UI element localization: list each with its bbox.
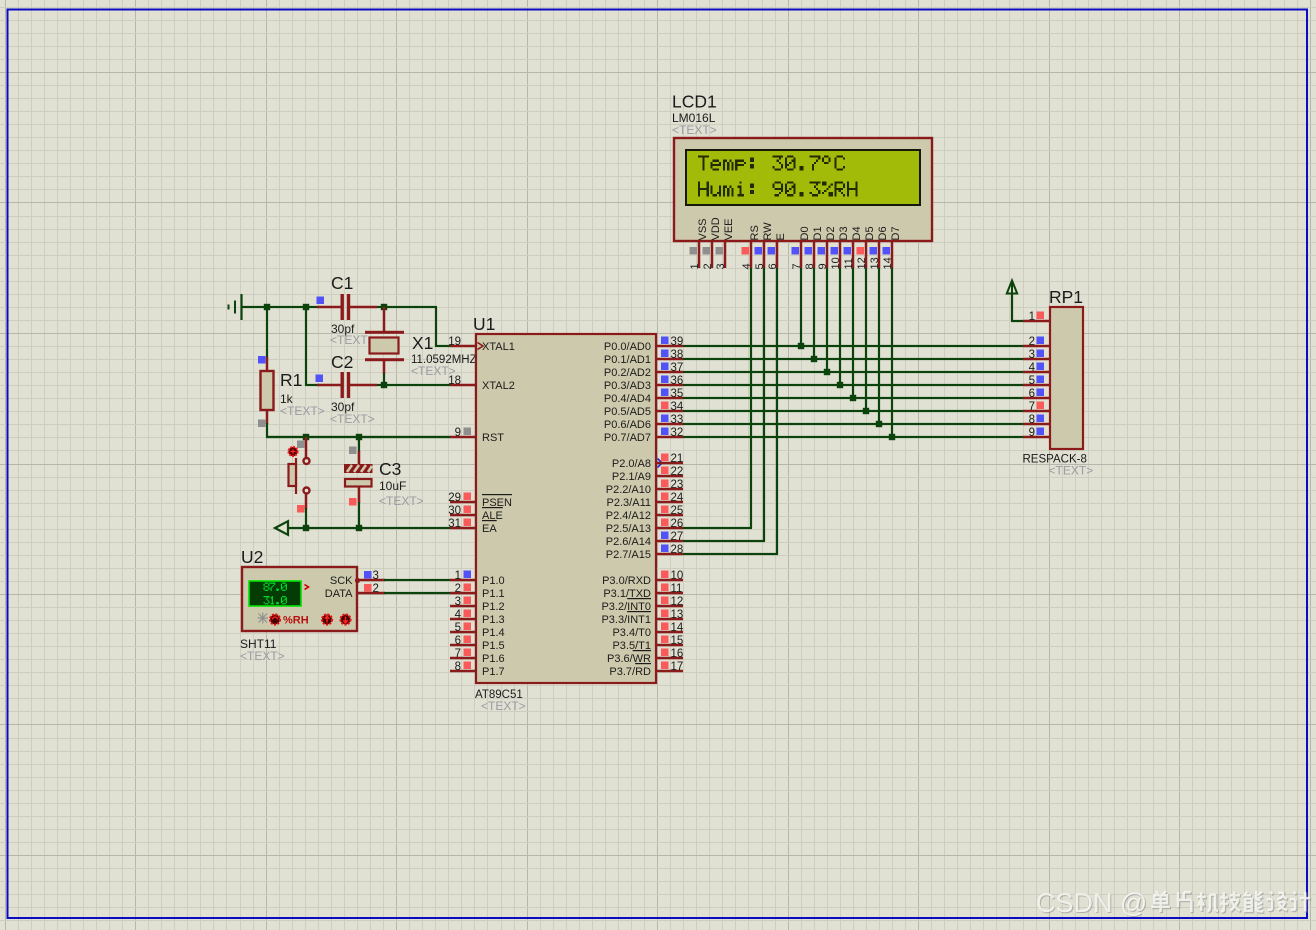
svg-text:D4: D4 (851, 226, 863, 240)
pin 10 D3 LCD (830, 226, 850, 269)
svg-text:10: 10 (830, 257, 842, 269)
op-chip U1 body (476, 334, 656, 683)
svg-text:39: 39 (671, 336, 684, 348)
svg-text:29: 29 (448, 492, 461, 504)
pin 8 RP1 (1023, 414, 1051, 426)
wire X1 bottom (383, 373, 385, 386)
pin 15 P3.5/T1 (612, 635, 683, 652)
pin 36 P0.3/AD3 (604, 375, 683, 392)
pin 5 RP1 (1023, 375, 1051, 387)
svg-text:U1: U1 (473, 314, 495, 334)
svg-text:P2.3/A11: P2.3/A11 (607, 497, 651, 509)
svg-text:5: 5 (1029, 375, 1035, 387)
svg-text:P3.7/RD: P3.7/RD (609, 666, 651, 678)
wire VCC-RP1 pin1 (1011, 293, 1023, 322)
pin 2 DATA U2 (325, 583, 385, 600)
svg-text:U2: U2 (241, 547, 263, 567)
svg-text:<TEXT>: <TEXT> (330, 412, 375, 426)
pin 4 P1.3 (450, 609, 505, 626)
svg-text:10: 10 (671, 570, 684, 582)
pin 3 VEE LCD (715, 218, 735, 269)
node gnd-button junction (303, 525, 309, 531)
svg-text:D3: D3 (838, 226, 850, 240)
wire R1 bottom (266, 423, 268, 438)
U2 cursor mark (305, 585, 309, 590)
svg-text:34: 34 (671, 401, 684, 413)
svg-text:RW: RW (762, 222, 774, 241)
svg-text:P0.6/AD6: P0.6/AD6 (604, 419, 651, 431)
svg-text:18: 18 (448, 375, 461, 387)
svg-text:P3.4/T0: P3.4/T0 (612, 627, 651, 639)
svg-text:P2.4/A12: P2.4/A12 (606, 510, 651, 522)
wire SCK-P1.0 (384, 579, 450, 581)
node D2 junction (824, 369, 830, 375)
svg-text:R1: R1 (280, 370, 302, 390)
svg-text:D2: D2 (825, 226, 837, 240)
pin 9 RP1 (1023, 427, 1051, 439)
pin 6 P1.5 (450, 635, 505, 652)
pin 5 RW LCD (754, 222, 774, 270)
pin 26 P2.5/A13 (606, 518, 684, 535)
pin 8 D1 LCD (804, 226, 824, 269)
pin 38 P0.1/AD1 (604, 349, 683, 366)
svg-text:EA: EA (482, 523, 497, 535)
svg-text:D7: D7 (890, 226, 902, 240)
svg-text:23: 23 (671, 479, 684, 491)
pin 1 VSS LCD (689, 218, 709, 269)
svg-text:7: 7 (1029, 401, 1035, 413)
U2 green display (249, 581, 301, 606)
svg-text:5: 5 (455, 622, 461, 634)
svg-text:31: 31 (448, 518, 461, 530)
pin 6 E LCD (767, 233, 787, 269)
svg-text:32: 32 (671, 427, 684, 439)
wire A-B (267, 306, 307, 308)
svg-text:P3.0/RXD: P3.0/RXD (602, 575, 651, 587)
pin 7 P1.6 (450, 648, 505, 665)
pin 2 RP1 (1023, 336, 1051, 348)
LCD text Humi: 90.3%RH (698, 181, 858, 196)
svg-text:13: 13 (671, 609, 684, 621)
svg-text:35: 35 (671, 388, 684, 400)
svg-text:8: 8 (455, 661, 461, 673)
svg-text:10uF: 10uF (379, 479, 406, 493)
node RST-C3 junction (356, 434, 362, 440)
pin 32 P0.7/AD7 (604, 427, 683, 444)
pin 23 P2.2/A10 (606, 479, 684, 496)
wire net D1/P0.1 (683, 268, 1023, 360)
pin 24 P2.3/A11 (607, 492, 684, 509)
display LCD1 body (674, 138, 932, 241)
crystal X1 (365, 307, 404, 374)
wire C1 left (305, 306, 318, 308)
XTAL1 clock mark (478, 343, 484, 350)
pin 29 PSEN (448, 492, 512, 509)
state square C1 (blue) (317, 297, 325, 305)
node D3 junction (837, 382, 843, 388)
node D0 junction (798, 343, 804, 349)
pin 1 RP1 (1023, 311, 1051, 323)
svg-text:22: 22 (671, 466, 684, 478)
svg-text:3: 3 (715, 263, 727, 269)
pin 22 P2.1/A9 (612, 466, 683, 483)
svg-text:VDD: VDD (710, 217, 722, 240)
svg-text:1: 1 (1029, 311, 1035, 323)
pin 16 P3.6/WR (607, 648, 683, 665)
U2 snowflake icon (258, 613, 269, 624)
svg-text:D0: D0 (799, 226, 811, 240)
svg-text:C3: C3 (379, 459, 401, 479)
svg-text:SCK: SCK (330, 575, 353, 587)
svg-text:VSS: VSS (697, 218, 709, 240)
node D1 junction (811, 356, 817, 362)
pin 10 P3.0/RXD (602, 570, 683, 587)
wire net D6/P0.6 (683, 268, 1023, 425)
wire net RS/P2.5 (683, 268, 752, 529)
push button RST (289, 458, 310, 494)
svg-text:9: 9 (455, 427, 461, 439)
svg-text:P0.7/AD7: P0.7/AD7 (604, 432, 651, 444)
U2 display 87.0 (264, 583, 287, 591)
svg-text:12: 12 (856, 257, 868, 269)
svg-text:7: 7 (455, 648, 461, 660)
svg-text:P1.4: P1.4 (482, 627, 505, 639)
pin 27 P2.6/A14 (606, 531, 684, 548)
svg-text:<TEXT>: <TEXT> (672, 123, 717, 137)
svg-text:P1.5: P1.5 (482, 640, 505, 652)
node D7 junction (889, 434, 895, 440)
resistor R1 (261, 357, 274, 424)
svg-text:P2.0/A8: P2.0/A8 (612, 458, 651, 470)
svg-text:12: 12 (671, 596, 684, 608)
pin 17 P3.7/RD (609, 661, 683, 678)
node D4 junction (850, 395, 856, 401)
wire gnd-junctionA (242, 306, 268, 308)
wire net D7/P0.7 (683, 268, 1023, 438)
wire net D3/P0.3 (683, 268, 1023, 386)
pin 14 P3.4/T0 (612, 622, 683, 639)
svg-text:P2.1/A9: P2.1/A9 (612, 471, 651, 483)
svg-text:RS: RS (749, 225, 761, 240)
wire net RW/P2.6 (683, 268, 765, 542)
svg-text:%RH: %RH (283, 615, 309, 627)
node B junction (303, 304, 309, 310)
pin 34 P0.5/AD5 (604, 401, 684, 418)
svg-text:9: 9 (1029, 427, 1035, 439)
svg-text:1: 1 (689, 263, 701, 269)
svg-text:28: 28 (671, 544, 684, 556)
svg-text:P2.6/A14: P2.6/A14 (606, 536, 651, 548)
svg-text:P1.2: P1.2 (482, 601, 505, 613)
capacitor C2 (317, 372, 377, 398)
state square button top (grey) (297, 441, 305, 449)
pin 13 P3.3/INT1 (601, 609, 683, 626)
button actuator marker (288, 447, 297, 456)
pin 2 P1.1 (450, 583, 505, 600)
pin 9 RST (450, 427, 504, 444)
pin 3 P1.2 (450, 596, 505, 613)
svg-text:37: 37 (671, 362, 684, 374)
svg-text:E: E (775, 233, 787, 240)
node RST-button junction (303, 434, 309, 440)
pin 28 P2.7/A15 (606, 544, 684, 561)
state square C2 (blue) (316, 375, 324, 383)
svg-text:33: 33 (671, 414, 684, 426)
svg-text:P2.2/A10: P2.2/A10 (606, 484, 651, 496)
node C1-X1 junction (381, 304, 387, 310)
node C2-X1 junction (381, 382, 387, 388)
wire DATA-P1.1 (384, 592, 450, 594)
svg-text:3: 3 (455, 596, 461, 608)
pin 18 XTAL2 (448, 375, 515, 392)
svg-text:8: 8 (1029, 414, 1035, 426)
pin 11 P3.1/TXD (603, 583, 683, 600)
wire net D4/P0.4 (683, 268, 1023, 399)
P2.0 bus mark (658, 459, 663, 468)
svg-text:2: 2 (1029, 336, 1035, 348)
U2 SCK clock dot (355, 578, 360, 583)
svg-text:C1: C1 (331, 273, 353, 293)
svg-text:26: 26 (671, 518, 684, 530)
svg-text:<TEXT>: <TEXT> (330, 333, 375, 347)
pin 37 P0.2/AD2 (604, 362, 683, 379)
sensor U2 body (242, 567, 357, 631)
svg-text:X1: X1 (412, 333, 433, 353)
pin 4 RP1 (1023, 362, 1051, 374)
svg-text:LCD1: LCD1 (672, 92, 717, 112)
wire net D0/P0.0 (683, 268, 1023, 347)
svg-text:6: 6 (1029, 388, 1035, 400)
wire button-gnd (305, 508, 307, 528)
svg-text:D6: D6 (877, 226, 889, 240)
svg-text:25: 25 (671, 505, 684, 517)
pin 14 D7 LCD (882, 226, 902, 269)
pin 12 D5 LCD (856, 226, 876, 269)
pin 19 XTAL1 (448, 336, 515, 353)
U2 knob down (341, 615, 351, 625)
svg-text:11: 11 (843, 258, 855, 269)
pin 9 D2 LCD (817, 226, 837, 269)
wire C1-XTAL1 (377, 306, 437, 308)
svg-text:14: 14 (671, 622, 684, 634)
node D5 junction (863, 408, 869, 414)
node D6 junction (876, 421, 882, 427)
wire net D2/P0.2 (683, 268, 1023, 373)
svg-text:3: 3 (1029, 349, 1035, 361)
pin 3 SCK U2 (330, 570, 385, 587)
wire C3 top (358, 437, 360, 452)
svg-text:19: 19 (448, 336, 461, 348)
wire C2-XTAL2 (377, 384, 450, 386)
wire R1 top (266, 307, 268, 358)
svg-text:17: 17 (671, 661, 684, 673)
wire button top (305, 437, 308, 458)
state square R1 top (blue) (258, 356, 266, 364)
wire net D5/P0.5 (683, 268, 1023, 412)
wire B-C2 (305, 306, 307, 386)
pin 13 D6 LCD (869, 226, 889, 269)
svg-text:P0.1/AD1: P0.1/AD1 (604, 354, 651, 366)
svg-text:2: 2 (455, 583, 461, 595)
svg-text:<TEXT>: <TEXT> (1049, 464, 1094, 478)
svg-text:36: 36 (671, 375, 684, 387)
pin 6 RP1 (1023, 388, 1051, 400)
capacitor C1 (317, 294, 377, 320)
wire net E/P2.7 (683, 268, 778, 555)
svg-text:30: 30 (448, 505, 461, 517)
pin 21 P2.0/A8 (612, 453, 683, 470)
svg-text:<TEXT>: <TEXT> (379, 494, 424, 508)
pin 5 P1.4 (450, 622, 505, 639)
svg-text:P2.5/A13: P2.5/A13 (606, 523, 651, 535)
svg-text:P1.6: P1.6 (482, 653, 505, 665)
pin 35 P0.4/AD4 (604, 388, 683, 405)
svg-text:VEE: VEE (723, 218, 735, 240)
pin 7 D0 LCD (791, 226, 811, 269)
state square C3 top (grey) (349, 447, 357, 455)
pin 1 P1.0 (450, 570, 505, 587)
U2 display 31.0 (264, 596, 287, 604)
svg-text:<TEXT>: <TEXT> (481, 699, 526, 713)
wire RST row (267, 436, 450, 438)
pin 2 VDD LCD (702, 217, 722, 269)
pin 3 RP1 (1023, 349, 1051, 361)
power symbol VCC (1007, 281, 1017, 295)
U2 knob up (322, 615, 332, 625)
pin 31 EA (448, 518, 497, 535)
ground arrow G2 (275, 521, 288, 535)
pin 39 P0.0/AD0 (604, 336, 683, 353)
svg-text:P0.0/AD0: P0.0/AD0 (604, 341, 651, 353)
pin 33 P0.6/AD6 (604, 414, 683, 431)
svg-text:14: 14 (882, 257, 894, 269)
wire gnd row to EA (287, 527, 450, 529)
capacitor C3 (344, 451, 373, 503)
svg-text:6: 6 (455, 635, 461, 647)
svg-text:2: 2 (373, 583, 379, 595)
svg-text:1: 1 (455, 570, 461, 582)
wire button bottom (305, 494, 308, 509)
pin 11 D4 LCD (843, 226, 863, 269)
svg-text:3: 3 (373, 570, 379, 582)
svg-text:4: 4 (1029, 362, 1036, 374)
U2 knob humidity (270, 615, 280, 625)
svg-text:13: 13 (869, 257, 881, 269)
svg-text:RST: RST (482, 432, 504, 444)
svg-text:P2.7/A15: P2.7/A15 (606, 549, 651, 561)
svg-text:P1.1: P1.1 (482, 588, 505, 600)
svg-text:<TEXT>: <TEXT> (240, 649, 285, 663)
svg-text:CSDN @: CSDN @ (1036, 888, 1147, 918)
svg-text:P1.0: P1.0 (482, 575, 505, 587)
wire C3-gnd (358, 502, 360, 528)
resistor-pack RP1 body (1050, 307, 1083, 449)
state square R1 bottom (grey) (258, 420, 266, 428)
state square C3 bottom (red) (349, 498, 357, 506)
LCD screen (686, 150, 920, 205)
state square button bottom (red) (297, 505, 305, 513)
svg-text:P0.5/AD5: P0.5/AD5 (604, 406, 651, 418)
pin 4 RS LCD (741, 225, 761, 269)
svg-text:P1.7: P1.7 (482, 666, 505, 678)
svg-text:4: 4 (455, 609, 462, 621)
svg-text:P1.3: P1.3 (482, 614, 505, 626)
svg-text:P0.4/AD4: P0.4/AD4 (604, 393, 651, 405)
ground G1 (229, 294, 242, 320)
svg-text:2: 2 (702, 263, 714, 269)
svg-text:24: 24 (671, 492, 684, 504)
svg-text:16: 16 (671, 648, 684, 660)
pin 30 ALE (448, 505, 503, 522)
svg-text:D1: D1 (812, 226, 824, 240)
svg-text:D5: D5 (864, 226, 876, 240)
svg-text:RP1: RP1 (1049, 287, 1083, 307)
svg-text:P0.2/AD2: P0.2/AD2 (604, 367, 651, 379)
svg-text:27: 27 (671, 531, 684, 543)
svg-text:P3.3/INT1: P3.3/INT1 (601, 614, 651, 626)
node A junction (264, 304, 270, 310)
LCD text Temp: 30.7 C (698, 155, 845, 170)
pin 12 P3.2/INT0 (601, 596, 683, 613)
svg-text:C2: C2 (331, 352, 353, 372)
svg-text:DATA: DATA (325, 588, 353, 600)
svg-text:XTAL1: XTAL1 (482, 341, 515, 353)
pin 25 P2.4/A12 (606, 505, 684, 522)
pin 8 P1.7 (450, 661, 505, 678)
svg-text:21: 21 (671, 453, 684, 465)
svg-text:P0.3/AD3: P0.3/AD3 (604, 380, 651, 392)
svg-text:<TEXT>: <TEXT> (280, 404, 325, 418)
svg-text:XTAL2: XTAL2 (482, 380, 515, 392)
svg-text:11: 11 (671, 583, 683, 595)
svg-text:38: 38 (671, 349, 684, 361)
node gnd-C3 junction (356, 525, 362, 531)
pin 7 RP1 (1023, 401, 1051, 413)
svg-text:15: 15 (671, 635, 684, 647)
